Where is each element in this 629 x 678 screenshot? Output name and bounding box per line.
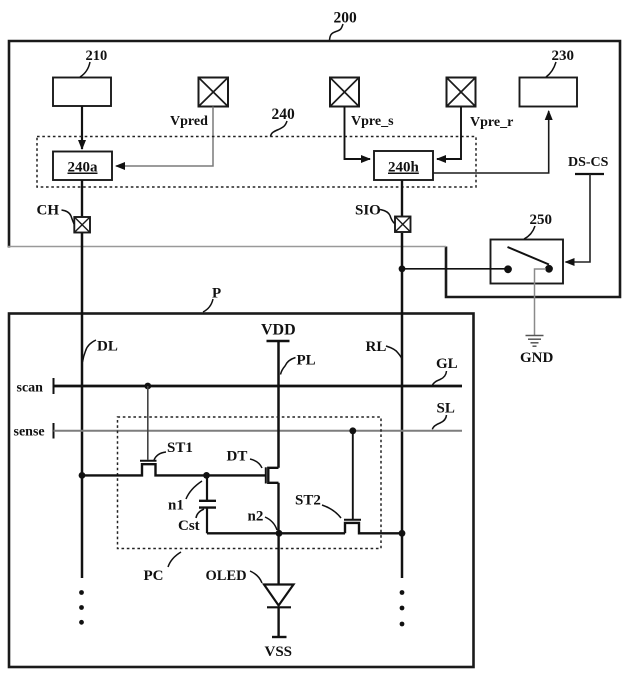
label 230 [546,48,574,77]
wire 210 to 240a (arrow) [81,106,83,149]
wire Vpred to 240a (arrow) [116,107,213,167]
label SL [432,401,455,430]
label CH [37,203,75,225]
label DL [83,339,118,363]
terminal Vpre_s X-box [330,78,359,107]
label DT [227,449,263,469]
capacitor Cst [199,475,216,533]
block 240h [374,151,433,180]
wire DS-CS to 250 (arrow left) [566,174,591,262]
wire DL [81,233,84,578]
label SIO [355,203,395,224]
svg-text:CH: CH [37,203,60,219]
label 200 [330,10,358,41]
X-switch SIO [395,217,411,233]
wire ST1 gate [147,386,149,460]
transistor DT [266,467,279,533]
svg-text:ST2: ST2 [295,493,321,509]
svg-text:GND: GND [520,350,554,366]
ellipsis dots RL [400,590,405,626]
wire 240h to SIO [401,180,403,218]
wire Vpre_r to 240h (arrow) [437,107,461,160]
node DL/n1 junction [79,472,86,479]
X-switch CH [74,217,90,233]
svg-text:n1: n1 [168,498,184,514]
block 210 [53,78,111,107]
svg-text:230: 230 [552,48,575,64]
svg-text:240h: 240h [388,160,420,176]
label n1 [168,481,202,514]
svg-text:200: 200 [334,10,358,27]
terminal scan tick [53,378,55,394]
svg-text:SL: SL [437,401,455,417]
ground GND symbol [526,336,544,347]
terminal VDD [261,322,296,342]
switch arm [508,247,550,265]
wire 240a to CH [81,180,83,218]
svg-text:240a: 240a [68,160,99,176]
label 240 [271,106,296,137]
label Cst [178,509,204,534]
node sense/ST2-gate dot [349,427,356,434]
dashed box 240 [37,137,476,188]
svg-text:RL: RL [366,339,387,355]
svg-text:VDD: VDD [261,322,296,339]
label 210 [80,48,107,77]
svg-text:OLED: OLED [206,568,247,584]
dashed box PC [118,417,382,549]
node n1 [203,472,210,479]
svg-text:DL: DL [97,339,118,355]
wire scan line GL [54,385,463,388]
terminal DS-CS bar [575,173,604,175]
wire 240h to 230 (arrow up) [433,111,549,173]
wire Vpre_s to 240h (arrow) [345,107,371,160]
block 230 [520,78,578,107]
label PL [281,353,316,375]
label P [203,286,221,313]
svg-text:250: 250 [530,212,553,228]
wire n2 row [207,532,345,534]
svg-text:Vpre_r: Vpre_r [470,115,513,130]
terminal Vpre_r X-box [447,78,476,107]
wire ST2 gate [352,431,354,519]
ellipsis dots DL [79,590,84,625]
switch contact right [545,265,553,273]
node ST2/RL junction [399,530,406,537]
wire SIO node to 250 [402,268,505,270]
svg-text:PL: PL [297,353,316,369]
block 250 switch box [491,240,564,284]
wire n2 to OLED [277,533,279,584]
switch contact left [504,265,512,273]
svg-text:DS-CS: DS-CS [568,155,609,170]
box P (pixel) [9,314,474,668]
svg-text:Cst: Cst [178,518,200,534]
transistor ST2 [344,520,402,534]
svg-text:ST1: ST1 [167,440,193,456]
svg-text:Vpre_s: Vpre_s [351,114,394,129]
svg-text:SIO: SIO [355,203,381,219]
label ST1 [154,440,193,460]
label RL [366,339,403,359]
svg-text:DT: DT [227,449,248,465]
node n2 [276,530,283,537]
wire sense line SL [54,430,463,432]
diode OLED [264,585,294,638]
label GL [432,356,457,386]
label PC [144,552,182,584]
svg-text:sense: sense [14,425,45,440]
block 200 outer box (step outline) [9,41,620,297]
label 250 [524,212,552,239]
wire 250 to GND [535,269,547,336]
transistor ST1 [82,461,266,476]
wire 200 bottom-left thin segment [8,246,446,248]
label OLED [206,568,263,584]
svg-text:PC: PC [144,568,164,584]
terminal Vpred X-box [199,78,229,107]
svg-text:210: 210 [86,48,108,64]
svg-text:scan: scan [17,381,44,396]
terminal sense tick [53,423,55,439]
label ST2 [295,493,341,519]
wire PL (VDD line) [277,341,280,468]
svg-text:Vpred: Vpred [170,114,208,129]
svg-text:GL: GL [436,356,458,372]
terminal VSS [265,637,293,660]
label n2 [248,509,278,531]
wire RL [401,233,404,578]
svg-text:VSS: VSS [265,644,293,660]
block 240a [53,152,112,181]
svg-text:240: 240 [272,106,296,123]
node SIO junction [399,265,406,272]
svg-text:n2: n2 [248,509,264,525]
node scan/ST1-gate dot [144,383,151,390]
